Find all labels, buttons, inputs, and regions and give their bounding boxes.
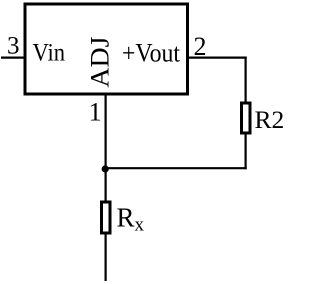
svg-text:+Vout: +Vout	[122, 38, 181, 68]
wire pin3 lead	[1, 56, 25, 58]
svg-text:1: 1	[89, 97, 102, 127]
resistor R2	[242, 103, 251, 133]
resistor Rx	[102, 202, 111, 233]
svg-text:Vin: Vin	[33, 40, 66, 67]
wire Rx bottom vertical	[104, 233, 106, 281]
wire pin2 horizontal	[189, 56, 247, 58]
svg-text:ADJ: ADJ	[86, 37, 115, 88]
wire R2 bottom vertical	[245, 133, 247, 169]
wire R2 top vertical	[245, 57, 247, 104]
svg-text:R2: R2	[255, 105, 284, 134]
wire ADJ vertical	[104, 94, 106, 202]
svg-text:3: 3	[7, 33, 20, 60]
junction node dot	[102, 165, 109, 172]
wire horizontal feedback	[105, 167, 247, 169]
regulator box U1	[25, 4, 188, 94]
